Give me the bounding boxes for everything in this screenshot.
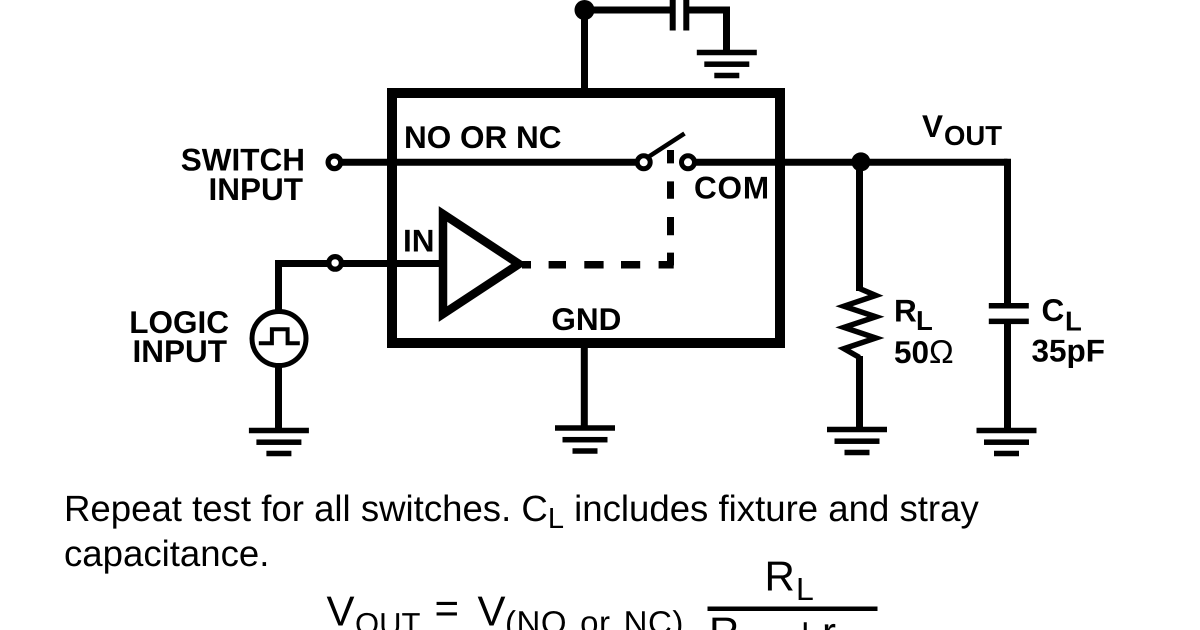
label RL bbox=[894, 292, 933, 336]
switch S1 lever bbox=[649, 134, 685, 157]
svg-text:35pF: 35pF bbox=[1032, 333, 1106, 369]
ground (GND pin) bbox=[555, 425, 615, 454]
resistor RL zigzag bbox=[844, 289, 876, 358]
svg-text:OUT: OUT bbox=[355, 607, 421, 630]
note: repeat test caption bbox=[64, 488, 979, 574]
wire: bypass capacitor to ground bbox=[686, 10, 726, 52]
svg-text:R: R bbox=[709, 609, 739, 630]
dashed control line from driver to switch (horizontal run) bbox=[522, 261, 674, 269]
ground (CL) bbox=[977, 428, 1037, 457]
svg-text:V: V bbox=[922, 108, 943, 144]
svg-text:IN: IN bbox=[403, 222, 435, 258]
ground (bypass capacitor) bbox=[697, 50, 757, 79]
svg-text:(NO or NC): (NO or NC) bbox=[505, 604, 684, 630]
wire: output corner down to CL bbox=[1004, 159, 1011, 304]
wire: V+ pin from DUT box top to bypass node bbox=[581, 10, 588, 96]
svg-text:Repeat test for all switches.: Repeat test for all switches. CL include… bbox=[64, 488, 979, 535]
switch S1 pole contact bbox=[637, 156, 650, 169]
svg-text:OUT: OUT bbox=[944, 120, 1002, 151]
wire: switch input terminal to NO/NC pole bbox=[334, 159, 640, 166]
capacitor C bypass right plate bbox=[683, 0, 689, 31]
svg-text:INPUT: INPUT bbox=[209, 171, 304, 207]
svg-text:C: C bbox=[1042, 292, 1065, 328]
wire: output node down to RL bbox=[856, 162, 863, 291]
pulse generator source bbox=[252, 312, 306, 366]
wire: logic input terminal to IN pin bbox=[279, 264, 444, 313]
node: bypass junction dot bbox=[575, 0, 595, 20]
terminal: LOGIC INPUT bbox=[329, 257, 342, 270]
DUT box bbox=[392, 93, 780, 343]
svg-text:COM: COM bbox=[694, 170, 770, 206]
svg-text:R: R bbox=[894, 292, 917, 328]
svg-text:NO OR NC: NO OR NC bbox=[404, 119, 562, 155]
wire: COM contact to output node bbox=[688, 159, 1008, 166]
svg-text:capacitance.: capacitance. bbox=[64, 533, 269, 574]
capacitor CL bottom plate bbox=[989, 319, 1029, 325]
label CL bbox=[1042, 292, 1082, 337]
label VOUT bbox=[922, 108, 1002, 151]
switch S1 throw contact COM bbox=[682, 156, 695, 169]
svg-text:+: + bbox=[793, 609, 818, 630]
ground (RL) bbox=[827, 427, 887, 456]
svg-text:L: L bbox=[796, 571, 814, 607]
label SWITCH INPUT bbox=[181, 142, 305, 207]
buffer driver U1 bbox=[443, 214, 519, 314]
ground (logic source) bbox=[249, 428, 309, 457]
wire: GND pin to ground bbox=[581, 345, 588, 426]
wire: pulse source to ground bbox=[275, 366, 282, 429]
wire: node to bypass capacitor bbox=[585, 7, 672, 14]
capacitor C bypass left plate bbox=[670, 0, 676, 31]
label LOGIC INPUT bbox=[129, 304, 229, 369]
wire: RL to ground bbox=[856, 356, 863, 427]
svg-text:V: V bbox=[478, 588, 506, 630]
dashed control line from driver to switch (vertical run) bbox=[667, 150, 674, 265]
node: VOUT junction dot bbox=[851, 152, 870, 171]
svg-text:L: L bbox=[916, 305, 933, 336]
svg-text:V: V bbox=[327, 588, 355, 630]
svg-text:GND: GND bbox=[551, 301, 621, 337]
wire: CL to ground bbox=[1004, 323, 1011, 428]
svg-text:INPUT: INPUT bbox=[133, 333, 228, 369]
equation VOUT = V(NO or NC) RL/(RL+r) bbox=[327, 553, 887, 630]
svg-text:=: = bbox=[435, 585, 460, 630]
svg-text:50Ω: 50Ω bbox=[894, 333, 954, 370]
terminal: SWITCH INPUT bbox=[328, 156, 341, 169]
svg-text:R: R bbox=[765, 553, 795, 600]
capacitor CL top plate bbox=[989, 303, 1029, 309]
svg-text:r: r bbox=[822, 609, 836, 630]
